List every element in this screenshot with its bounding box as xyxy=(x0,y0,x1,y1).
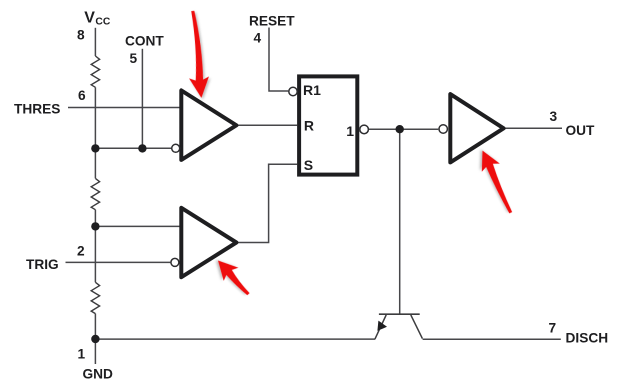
svg-text:1: 1 xyxy=(346,123,354,139)
svg-text:S: S xyxy=(304,157,313,173)
svg-text:GND: GND xyxy=(83,366,114,381)
svg-text:2: 2 xyxy=(77,244,85,259)
svg-text:V: V xyxy=(84,10,95,27)
svg-text:7: 7 xyxy=(549,321,557,336)
svg-text:6: 6 xyxy=(78,88,86,103)
svg-text:4: 4 xyxy=(254,30,262,45)
svg-text:RESET: RESET xyxy=(249,13,295,28)
svg-text:R1: R1 xyxy=(303,82,321,98)
svg-text:3: 3 xyxy=(550,109,558,124)
svg-text:DISCH: DISCH xyxy=(566,331,609,346)
svg-text:1: 1 xyxy=(78,347,86,362)
svg-text:TRIG: TRIG xyxy=(26,257,59,272)
svg-text:8: 8 xyxy=(77,27,85,42)
svg-text:R: R xyxy=(304,117,314,133)
svg-text:5: 5 xyxy=(130,51,138,66)
svg-text:CONT: CONT xyxy=(125,33,164,48)
svg-text:THRES: THRES xyxy=(14,102,60,117)
svg-text:OUT: OUT xyxy=(566,123,596,138)
svg-text:CC: CC xyxy=(95,16,110,27)
